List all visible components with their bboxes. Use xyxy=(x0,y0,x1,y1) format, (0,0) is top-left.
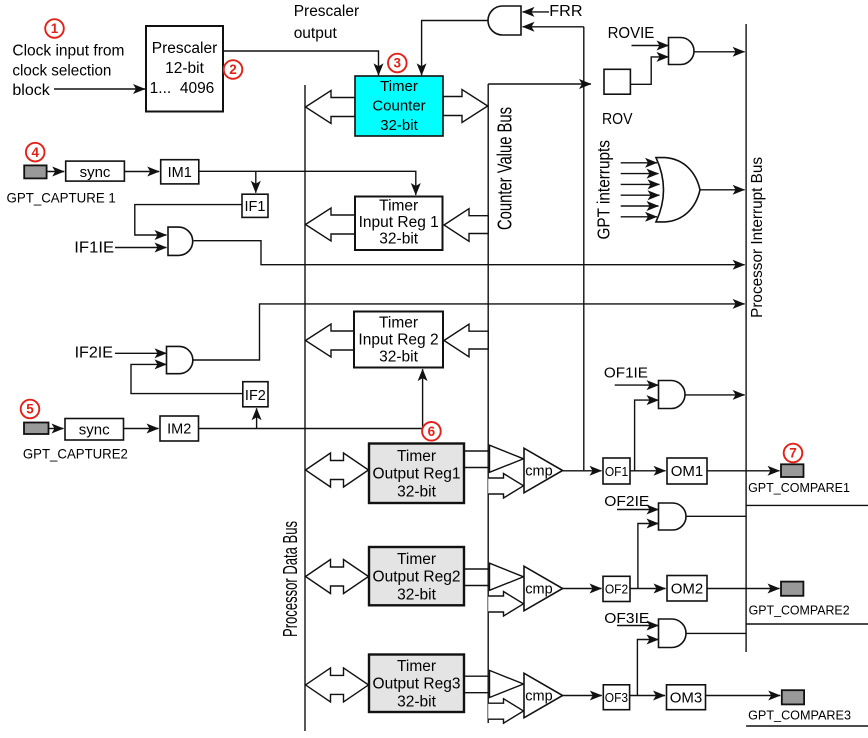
wire: FRR gate output elbow into counter xyxy=(422,21,488,76)
wire: OF1 to OM1 xyxy=(630,470,666,472)
svg-text:clock selection: clock selection xyxy=(12,63,111,80)
wire: cmp3 output to OF3 xyxy=(563,695,602,697)
node 4 circle xyxy=(26,143,45,162)
and gate OF3IE xyxy=(659,619,687,648)
svg-text:7: 7 xyxy=(789,446,797,461)
bus arrow: counter to counter value bus (right) xyxy=(443,90,488,123)
timer input reg 1 box xyxy=(355,197,443,251)
OM2 box xyxy=(667,576,707,602)
wire: GPT interrupt input 5 xyxy=(621,205,659,207)
wire: OF3IE top input xyxy=(617,625,659,627)
OF2 box xyxy=(603,576,630,601)
wire: IM1 to timer input reg 1 xyxy=(199,171,416,195)
svg-text:Timer: Timer xyxy=(397,448,436,465)
svg-text:Timer: Timer xyxy=(379,315,418,332)
wire: cmp1 output to OF1 xyxy=(563,470,602,472)
svg-text:IM1: IM1 xyxy=(168,165,192,181)
text labels xyxy=(12,43,124,100)
svg-text:OF3IE: OF3IE xyxy=(604,610,649,627)
pad GPT_CAPTURE2 xyxy=(24,423,49,435)
wire: FRR label input xyxy=(523,11,550,13)
pad GPT_COMPARE2 xyxy=(781,582,803,596)
svg-text:IF2IE: IF2IE xyxy=(75,345,113,362)
wire: OM3 to GPT_COMPARE3 pad xyxy=(706,695,781,697)
bus arrow: input reg 1 to data bus (left) xyxy=(306,208,356,241)
wire: FRR gate second input from counter tap xyxy=(523,26,584,28)
wire: clock input arrow xyxy=(54,88,145,90)
bus arrow: input reg 2 to data bus (left) xyxy=(306,324,355,357)
wire: cmp2 output to OF2 xyxy=(563,588,602,590)
and gate FRR (mirrored) xyxy=(488,6,521,35)
wire: OF3 to OM3 xyxy=(630,695,665,697)
ROV box xyxy=(604,69,630,94)
svg-text:output: output xyxy=(294,25,338,42)
wire: rule under GPT_COMPARE3 xyxy=(746,725,868,727)
svg-text:Prescaler: Prescaler xyxy=(152,40,217,57)
node 1 circle xyxy=(45,19,64,38)
wire: OF2 feedback up to OF2IE gate xyxy=(638,524,659,589)
svg-text:ROVIE: ROVIE xyxy=(608,25,655,42)
svg-text:3: 3 xyxy=(394,56,402,71)
svg-text:GPT interrupts: GPT interrupts xyxy=(594,140,614,240)
bus arrow: output reg1 double arrow xyxy=(306,453,369,487)
wire: processor data bus vertical xyxy=(304,85,306,731)
svg-text:Prescaler: Prescaler xyxy=(294,3,359,20)
svg-text:IF1: IF1 xyxy=(245,199,266,215)
cmp1 input arrow from output reg (tails) xyxy=(465,450,490,452)
svg-text:GPT_COMPARE1: GPT_COMPARE1 xyxy=(748,480,850,495)
wire: counter tap vertical (FRR feed) xyxy=(583,27,585,471)
wire: OF3 feedback up to OF3IE gate xyxy=(637,640,658,696)
IM1 box xyxy=(161,160,199,184)
svg-text:Counter Value Bus: Counter Value Bus xyxy=(495,107,517,230)
wire: OF1IE top input xyxy=(615,384,659,386)
wire: capture2 pad to sync xyxy=(49,428,64,430)
svg-text:Counter: Counter xyxy=(372,98,425,115)
wire: OM1 to GPT_COMPARE1 pad xyxy=(707,470,780,472)
svg-text:IF2: IF2 xyxy=(245,388,266,404)
cmp1 comparator triangle xyxy=(524,448,563,493)
svg-text:GPT_COMPARE2: GPT_COMPARE2 xyxy=(749,603,850,618)
svg-text:cmp: cmp xyxy=(525,464,552,480)
wire: OF1 feedback up to OF1IE gate xyxy=(635,400,659,471)
pad GPT_COMPARE1 xyxy=(781,464,804,477)
or gate GPT interrupts xyxy=(656,158,700,222)
wire: capture1 pad to sync xyxy=(47,171,65,173)
wire: IF1IE label input xyxy=(115,247,167,249)
svg-text:Timer: Timer xyxy=(397,551,436,568)
wire: ROV to ROVIE gate elbow xyxy=(630,57,668,84)
svg-text:ROV: ROV xyxy=(602,111,633,128)
svg-text:12-bit: 12-bit xyxy=(165,60,204,77)
wire: counter value bus vertical xyxy=(487,84,489,723)
gates xyxy=(167,6,701,718)
svg-text:5: 5 xyxy=(26,402,34,417)
svg-text:Output Reg2: Output Reg2 xyxy=(373,569,461,586)
svg-text:GPT_COMPARE3: GPT_COMPARE3 xyxy=(748,708,851,723)
timer output reg1 box xyxy=(369,444,464,504)
wire: IF2IE label input xyxy=(115,352,167,354)
bus arrow: counter value bus into input reg 1 (right) xyxy=(444,209,488,242)
svg-text:Processor Data Bus: Processor Data Bus xyxy=(280,521,302,637)
svg-text:32-bit: 32-bit xyxy=(379,349,418,366)
svg-text:OM1: OM1 xyxy=(671,463,704,480)
svg-text:32-bit: 32-bit xyxy=(397,483,436,500)
svg-text:OF3: OF3 xyxy=(605,691,628,705)
svg-text:32-bit: 32-bit xyxy=(379,231,418,248)
wire: rule under GPT_COMPARE2 xyxy=(746,623,868,625)
timer input reg 2 box xyxy=(354,312,443,368)
and gate OF2IE xyxy=(659,503,687,530)
svg-text:GPT_CAPTURE 1: GPT_CAPTURE 1 xyxy=(7,190,117,206)
cmp2 input arrow head xyxy=(490,563,524,590)
svg-text:OF2IE: OF2IE xyxy=(604,493,649,510)
wire: GPT interrupt input 2 xyxy=(621,173,659,175)
sync box 1 xyxy=(66,161,125,181)
wire: IM2 to timer input reg 2 xyxy=(199,369,423,428)
OF1 box xyxy=(603,458,630,484)
wire: OR gate output to interrupt bus xyxy=(700,189,745,191)
svg-text:Timer: Timer xyxy=(379,197,418,214)
wire: OF2IE gate output to interrupt bus xyxy=(686,515,746,517)
svg-text:32-bit: 32-bit xyxy=(397,693,436,710)
wire: OF3IE gate output to interrupt bus xyxy=(686,632,746,634)
svg-text:OM2: OM2 xyxy=(671,581,704,598)
svg-text:OF1: OF1 xyxy=(605,465,628,479)
svg-text:1... 4096: 1... 4096 xyxy=(150,80,215,97)
cmp2 input arrow from output reg (tails) xyxy=(465,568,490,570)
bus arrow: output reg2 double arrow xyxy=(306,560,369,594)
cmp2 comparator triangle xyxy=(524,566,563,611)
svg-text:sync: sync xyxy=(80,164,111,181)
bus arrow: counter value bus into input reg 2 (right) xyxy=(444,324,488,357)
wire: OF2 to OM2 xyxy=(630,588,666,590)
timer output reg3 box xyxy=(369,655,464,713)
svg-text:OF1IE: OF1IE xyxy=(604,365,648,382)
prescaler box xyxy=(146,26,223,112)
svg-text:1: 1 xyxy=(51,21,59,36)
svg-text:IF1IE: IF1IE xyxy=(74,239,114,256)
boxes xyxy=(65,26,707,712)
wire: OF1IE gate output to interrupt bus xyxy=(685,394,745,396)
svg-text:Input Reg 2: Input Reg 2 xyxy=(358,332,438,349)
wire: IF1IE gate output to interrupt bus xyxy=(194,241,745,265)
wire: GPT interrupt input 3 xyxy=(621,183,660,185)
wire: ROVIE input xyxy=(632,45,669,47)
svg-text:GPT_CAPTURE2: GPT_CAPTURE2 xyxy=(23,446,128,462)
wire: sync to IM1 xyxy=(124,171,159,173)
and gate OF1IE xyxy=(659,381,686,409)
wire: branch down into IF1 xyxy=(255,171,257,192)
cmp1 input arrow from counter value bus xyxy=(488,474,523,499)
wire: IF2 loop to IF2IE gate bottom input xyxy=(131,364,243,393)
and gate IF1IE xyxy=(168,227,193,255)
svg-text:Output Reg1: Output Reg1 xyxy=(373,466,461,483)
wire: IF2IE gate output to interrupt bus xyxy=(193,304,745,360)
svg-text:Input Reg 1: Input Reg 1 xyxy=(359,214,439,231)
timer output reg2 box xyxy=(369,547,464,605)
wire: counter value to ROV (node top corner) xyxy=(488,83,591,85)
IF1 box xyxy=(242,194,268,217)
wire: GPT interrupt input 4 xyxy=(621,194,660,196)
svg-text:Timer: Timer xyxy=(397,658,436,675)
wire: branch up into IF2 xyxy=(256,408,258,428)
svg-text:4: 4 xyxy=(31,145,39,160)
node 5 circle xyxy=(21,400,40,419)
node 7 circle xyxy=(784,444,803,463)
svg-text:Timer: Timer xyxy=(380,78,418,95)
svg-text:2: 2 xyxy=(229,62,237,77)
bus arrow: counter to data bus (left) xyxy=(306,91,356,124)
svg-text:32-bit: 32-bit xyxy=(397,586,436,603)
cmp3 comparator triangle xyxy=(524,673,563,718)
svg-text:cmp: cmp xyxy=(525,582,552,598)
pad GPT_COMPARE3 xyxy=(782,690,804,704)
OF3 box xyxy=(603,685,629,710)
svg-text:32-bit: 32-bit xyxy=(380,117,418,134)
wire: rule under GPT_COMPARE1 xyxy=(746,504,868,506)
pad GPT_CAPTURE 1 xyxy=(24,165,46,178)
cmp3 input arrow from counter value bus xyxy=(488,699,523,724)
wire: GPT interrupt input 1 xyxy=(621,162,657,164)
cmp3 input arrow from output reg (tails) xyxy=(465,675,490,677)
svg-text:Processor Interrupt Bus: Processor Interrupt Bus xyxy=(749,157,766,318)
OM3 box xyxy=(667,685,706,710)
svg-text:cmp: cmp xyxy=(525,689,552,705)
wire: OF2IE top input xyxy=(617,509,659,511)
cmp input open arrows row 1 xyxy=(465,445,524,723)
wire: sync to IM2 xyxy=(124,428,159,430)
wire: GPT interrupt input 6 xyxy=(621,216,657,218)
svg-text:Output Reg3: Output Reg3 xyxy=(373,676,461,693)
timer counter box xyxy=(355,76,443,136)
svg-text:sync: sync xyxy=(79,422,110,439)
pads xyxy=(24,165,804,704)
svg-text:OF2: OF2 xyxy=(605,583,628,597)
numbered circles xyxy=(21,19,803,462)
node 3 circle xyxy=(388,54,407,73)
cmp1 input arrow head xyxy=(490,445,524,472)
svg-text:IM2: IM2 xyxy=(167,422,191,438)
wire: ROVIE gate output to interrupt bus xyxy=(694,51,745,53)
svg-text:block: block xyxy=(12,82,50,99)
wire: OM2 to GPT_COMPARE2 pad xyxy=(707,588,780,590)
IF2 box xyxy=(243,382,268,407)
wire: prescaler output elbow into counter xyxy=(223,51,379,75)
cmp2 input arrow from counter value bus xyxy=(488,592,523,617)
OM1 box xyxy=(667,458,707,484)
svg-text:OM3: OM3 xyxy=(670,690,703,707)
wire: processor interrupt bus vertical xyxy=(745,24,747,652)
svg-text:Clock input from: Clock input from xyxy=(12,43,124,60)
sync box 2 xyxy=(65,419,124,441)
and gate IF2IE xyxy=(167,346,193,373)
hollow bus arrows xyxy=(306,90,489,702)
IM2 box xyxy=(160,416,199,441)
svg-text:6: 6 xyxy=(428,424,436,439)
and gate ROVIE xyxy=(669,38,694,65)
cmp3 input arrow head xyxy=(490,670,524,697)
node 2 circle xyxy=(224,60,243,79)
node 6 circle xyxy=(422,422,441,441)
bus arrow: output reg3 double arrow xyxy=(306,668,369,702)
wire: IF1 loop to IF1IE gate top input xyxy=(135,205,242,235)
svg-text:FRR: FRR xyxy=(549,3,582,20)
